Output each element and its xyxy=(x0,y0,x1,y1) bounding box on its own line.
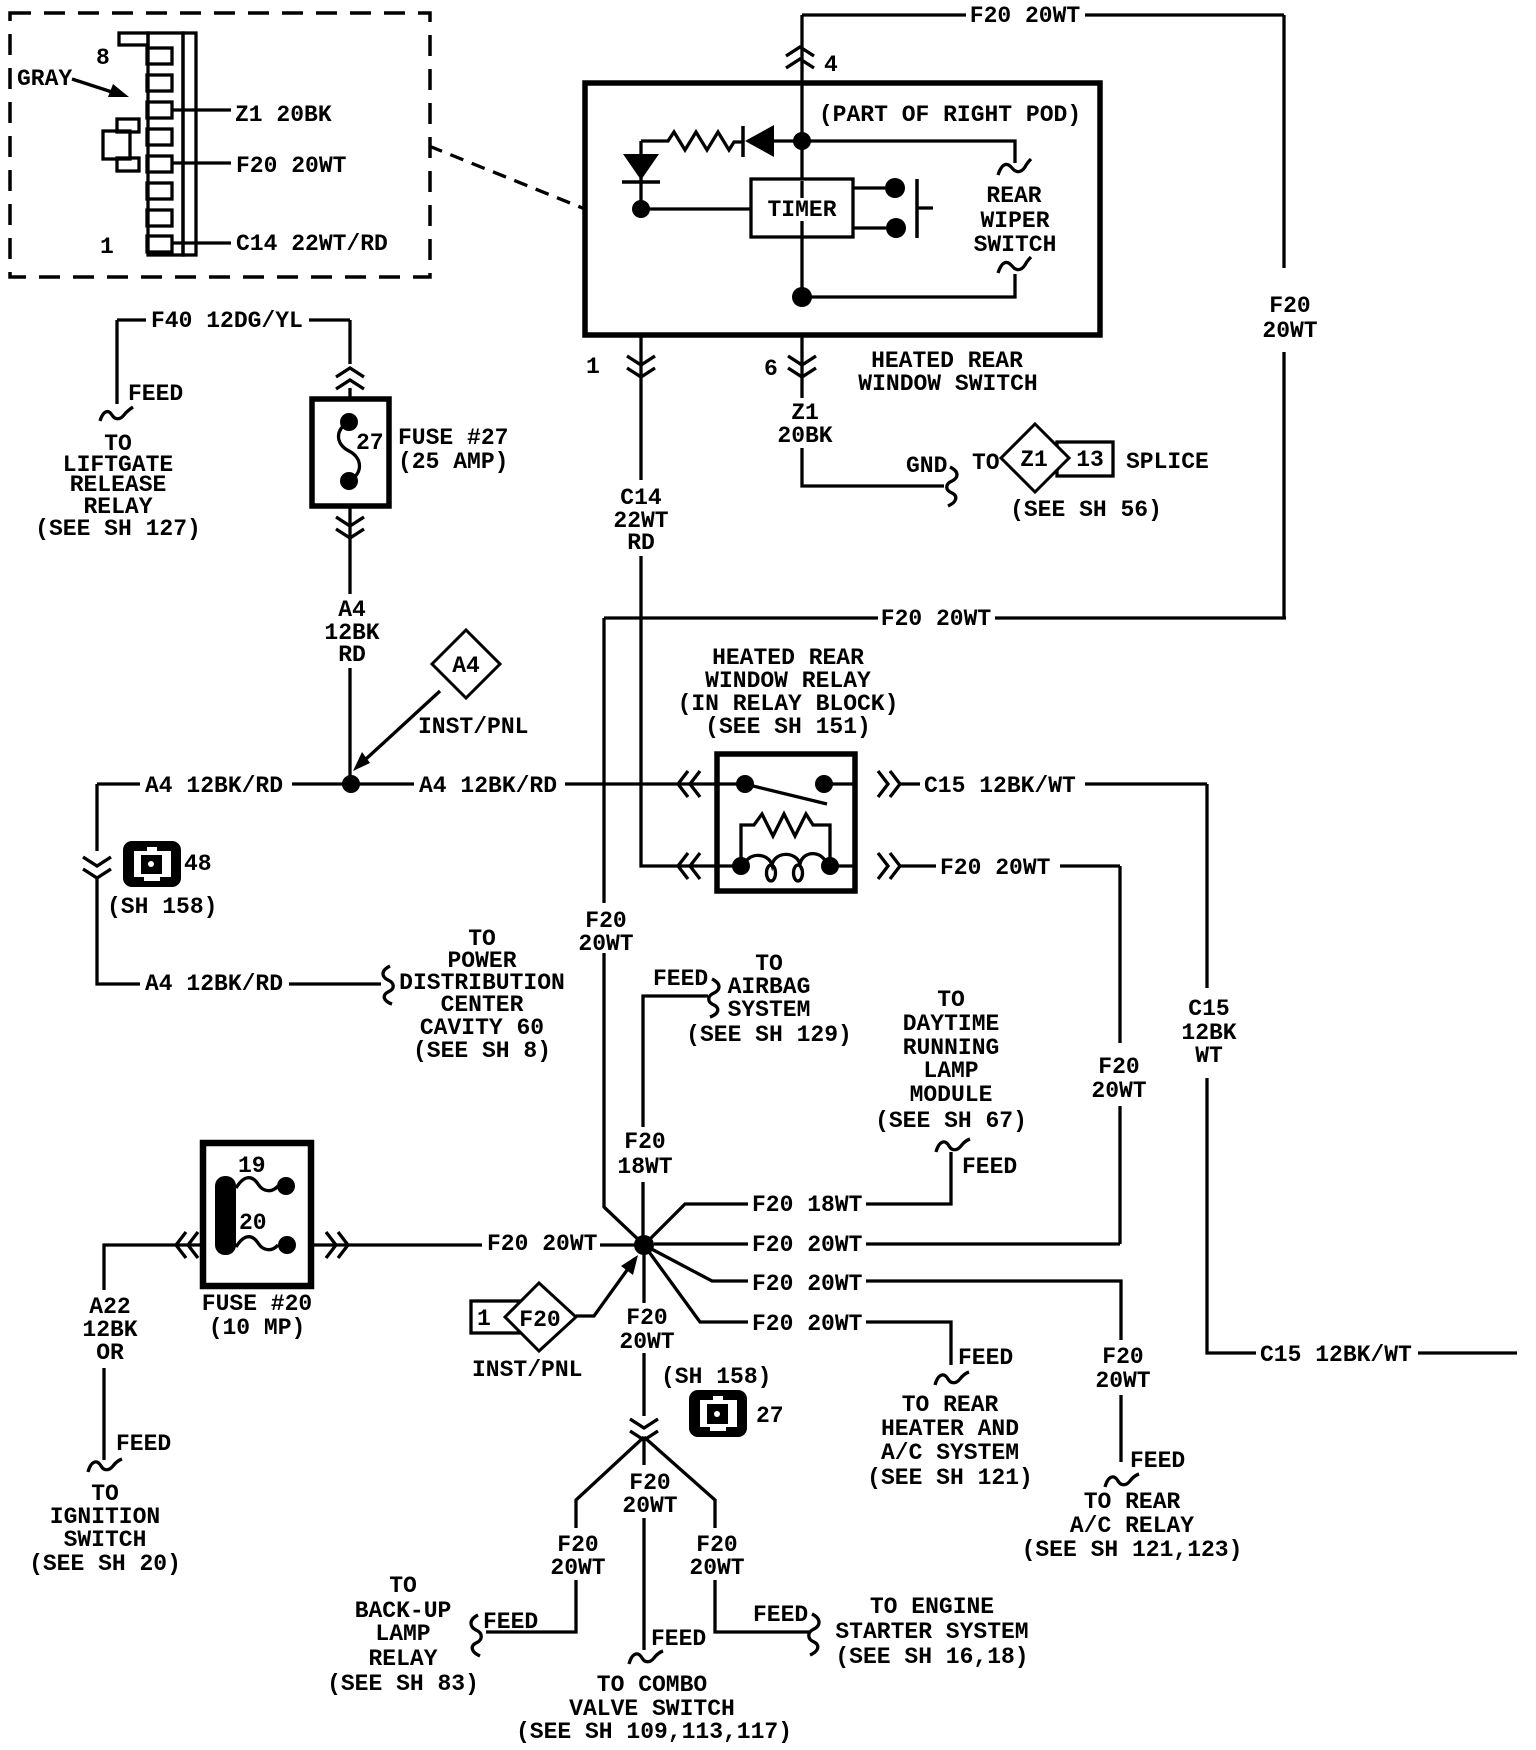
svg-text:F20: F20 xyxy=(626,1305,667,1331)
rear wiper switch lower contact wire xyxy=(802,274,1015,297)
svg-text:FEED: FEED xyxy=(1130,1448,1185,1474)
svg-text:TO: TO xyxy=(389,1573,417,1599)
svg-text:(SEE SH 129): (SEE SH 129) xyxy=(686,1022,852,1048)
svg-text:RELAY: RELAY xyxy=(368,1646,437,1672)
svg-text:(SEE SH 67): (SEE SH 67) xyxy=(875,1108,1027,1134)
svg-text:C15: C15 xyxy=(1188,996,1229,1022)
svg-text:TO ENGINE: TO ENGINE xyxy=(870,1594,994,1620)
svg-text:F20 18WT: F20 18WT xyxy=(752,1192,863,1218)
node: A4 junction dot xyxy=(342,775,360,793)
svg-text:TO: TO xyxy=(937,987,965,1013)
svg-text:20WT: 20WT xyxy=(550,1555,605,1581)
svg-text:F20 20WT: F20 20WT xyxy=(752,1232,863,1258)
connector chevrons relay right top xyxy=(878,771,900,797)
svg-text:4: 4 xyxy=(824,52,838,78)
svg-text:Z1: Z1 xyxy=(1020,447,1048,473)
svg-text:INST/PNL: INST/PNL xyxy=(472,1357,582,1383)
wire airbag feed xyxy=(643,996,708,1245)
svg-text:FEED: FEED xyxy=(116,1431,171,1457)
heated rear window switch box (part of right pod) xyxy=(585,83,1100,335)
svg-text:LAMP: LAMP xyxy=(375,1621,430,1647)
node: junction dot pin4 line xyxy=(793,132,811,150)
wire C15 12BK/WT from relay xyxy=(900,784,1517,1353)
svg-text:20WT: 20WT xyxy=(619,1329,674,1355)
connector chevrons fuse20 left xyxy=(176,1232,198,1258)
svg-text:SPLICE: SPLICE xyxy=(1126,449,1209,475)
svg-text:TO REAR: TO REAR xyxy=(1084,1489,1181,1515)
feed squiggle rear heater xyxy=(935,1372,969,1385)
connector detail dashed box xyxy=(10,13,430,277)
pin wire C14 xyxy=(171,241,231,244)
feed squiggle rear AC relay xyxy=(1105,1474,1139,1487)
connector chevron below junction xyxy=(630,1419,658,1440)
diode D2 (LED pointing down) xyxy=(639,141,642,209)
svg-text:FEED: FEED xyxy=(128,381,183,407)
svg-text:TIMER: TIMER xyxy=(767,197,836,223)
splice Z1 id box 13 xyxy=(1057,442,1113,476)
svg-text:1: 1 xyxy=(100,234,114,260)
feed squiggle engine starter xyxy=(809,1614,819,1655)
connector 48 icon xyxy=(123,841,181,887)
GRAY arrow xyxy=(72,79,112,92)
wire F20 20WT junction to relay leg xyxy=(654,1242,1120,1245)
svg-text:(SEE SH 151): (SEE SH 151) xyxy=(705,714,871,740)
feed squiggle power distribution xyxy=(383,966,393,1004)
svg-text:20WT: 20WT xyxy=(1262,318,1317,344)
svg-text:20: 20 xyxy=(239,1210,267,1236)
wire A22 12BK OR xyxy=(104,1245,203,1460)
connector C (gray 8-way) body xyxy=(103,33,196,255)
svg-text:A/C SYSTEM: A/C SYSTEM xyxy=(881,1440,1019,1466)
svg-text:A4: A4 xyxy=(452,653,480,679)
svg-text:F20: F20 xyxy=(1098,1054,1139,1080)
svg-text:(10 MP): (10 MP) xyxy=(209,1315,306,1341)
wire F20 20WT from relay coil xyxy=(900,866,1120,1244)
feed squiggle DRL xyxy=(936,1139,970,1152)
svg-text:FEED: FEED xyxy=(653,966,708,992)
svg-text:(SEE SH 83): (SEE SH 83) xyxy=(327,1671,479,1697)
svg-text:6: 6 xyxy=(764,356,778,382)
svg-text:TO COMBO: TO COMBO xyxy=(597,1672,707,1698)
wire F20 20WT to rear heater xyxy=(644,1245,951,1365)
svg-text:WIPER: WIPER xyxy=(980,208,1049,234)
wire junction down xyxy=(642,1255,645,1416)
svg-text:LAMP: LAMP xyxy=(923,1058,978,1084)
wire dot to timer xyxy=(641,207,751,210)
svg-text:MODULE: MODULE xyxy=(910,1082,993,1108)
connector chevron above fuse27 xyxy=(336,368,364,389)
svg-text:F20 20WT: F20 20WT xyxy=(236,153,347,179)
svg-text:(SEE SH 109,113,117): (SEE SH 109,113,117) xyxy=(516,1719,792,1745)
relay contact row wire xyxy=(717,782,855,785)
wire A4 12BK/RD row xyxy=(97,784,717,984)
connector chevrons relay right bottom xyxy=(878,853,900,879)
svg-text:F20: F20 xyxy=(519,1307,560,1333)
fuse bus bar xyxy=(215,1176,236,1255)
svg-text:1: 1 xyxy=(477,1306,491,1332)
svg-text:REAR: REAR xyxy=(986,183,1041,209)
svg-text:27: 27 xyxy=(356,430,384,456)
wire F20 18WT daytime running lamp branch xyxy=(644,1152,951,1245)
svg-text:F20: F20 xyxy=(624,1129,665,1155)
svg-text:(SEE SH 127): (SEE SH 127) xyxy=(35,516,201,542)
svg-text:18WT: 18WT xyxy=(617,1154,672,1180)
connector chevron pin6 xyxy=(788,356,816,377)
wire split to back-up lamp relay xyxy=(486,1437,644,1632)
svg-text:DAYTIME: DAYTIME xyxy=(903,1011,1000,1037)
wire F20 inst/pnl leader xyxy=(576,1266,630,1316)
svg-text:HEATER AND: HEATER AND xyxy=(881,1416,1019,1442)
svg-text:19: 19 xyxy=(238,1153,266,1179)
svg-text:(SEE SH 56): (SEE SH 56) xyxy=(1010,497,1162,523)
wire fuse20 to junction F20 20WT xyxy=(311,1243,644,1246)
svg-text:TO: TO xyxy=(972,450,1000,476)
F20 INST/PNL diamond xyxy=(505,1283,576,1351)
svg-text:(SEE SH 20): (SEE SH 20) xyxy=(29,1551,181,1577)
svg-text:A4 12BK/RD: A4 12BK/RD xyxy=(419,773,557,799)
svg-text:FEED: FEED xyxy=(483,1609,538,1635)
rear wiper switch upper contact wire xyxy=(802,141,1015,163)
svg-text:WINDOW SWITCH: WINDOW SWITCH xyxy=(858,371,1037,397)
wire pin6 Z1 20BK xyxy=(802,335,944,486)
svg-text:INST/PNL: INST/PNL xyxy=(418,714,528,740)
svg-text:Z1 20BK: Z1 20BK xyxy=(235,102,332,128)
fuse F27 box xyxy=(312,399,389,506)
connector 27 icon xyxy=(689,1390,747,1437)
F20 id box 1 xyxy=(471,1301,519,1333)
svg-text:(PART OF RIGHT POD): (PART OF RIGHT POD) xyxy=(819,102,1081,128)
node: timer input dot xyxy=(632,200,650,218)
node: timer lower dot xyxy=(792,287,812,307)
dashed leader to switch box xyxy=(429,146,585,209)
svg-text:48: 48 xyxy=(184,851,212,877)
svg-text:(SH 158): (SH 158) xyxy=(107,894,217,920)
svg-text:SWITCH: SWITCH xyxy=(974,232,1057,258)
wire F20 20WT top loop xyxy=(604,15,1286,1245)
fuse element 20 xyxy=(236,1237,278,1250)
fuse element xyxy=(339,422,360,481)
svg-text:1: 1 xyxy=(586,354,600,380)
svg-text:FEED: FEED xyxy=(753,1602,808,1628)
svg-text:F20 20WT: F20 20WT xyxy=(752,1271,863,1297)
svg-text:27: 27 xyxy=(756,1403,784,1429)
connector chevron below fuse27 xyxy=(336,517,364,538)
svg-text:F20: F20 xyxy=(1102,1344,1143,1370)
wire pin4 drop into switch xyxy=(800,15,803,180)
svg-text:C14 22WT/RD: C14 22WT/RD xyxy=(236,231,388,257)
wire F20 20WT to rear AC relay xyxy=(644,1245,1121,1462)
timer output pins xyxy=(853,188,886,228)
svg-text:GRAY: GRAY xyxy=(17,66,72,92)
svg-text:GND: GND xyxy=(906,453,947,479)
rear wiper switch contact bar xyxy=(915,179,919,238)
feed squiggle combo valve xyxy=(629,1651,663,1664)
feed squiggle airbag xyxy=(709,979,719,1017)
svg-text:A/C RELAY: A/C RELAY xyxy=(1070,1513,1194,1539)
svg-text:RD: RD xyxy=(338,642,366,668)
svg-text:20WT: 20WT xyxy=(1095,1368,1150,1394)
svg-text:SYSTEM: SYSTEM xyxy=(728,997,811,1023)
svg-text:F20 20WT: F20 20WT xyxy=(487,1231,598,1257)
svg-text:20WT: 20WT xyxy=(578,931,633,957)
fuse element 19 xyxy=(236,1178,278,1191)
connector chevron A4 left leg xyxy=(83,857,111,878)
svg-text:(SEE SH 121): (SEE SH 121) xyxy=(867,1465,1033,1491)
splice Z1 diamond xyxy=(1001,424,1069,492)
svg-text:F40 12DG/YL: F40 12DG/YL xyxy=(151,308,303,334)
svg-text:20BK: 20BK xyxy=(777,423,832,449)
svg-text:OR: OR xyxy=(96,1340,124,1366)
svg-text:F20 20WT: F20 20WT xyxy=(970,3,1081,29)
svg-text:FUSE #20: FUSE #20 xyxy=(202,1291,312,1317)
connector chevron 4 xyxy=(786,47,814,68)
pin wire Z1 xyxy=(171,108,231,111)
svg-text:(25 AMP): (25 AMP) xyxy=(398,449,508,475)
A4 INST/PNL diamond xyxy=(432,630,500,698)
svg-text:FEED: FEED xyxy=(962,1154,1017,1180)
svg-text:RD: RD xyxy=(627,530,655,556)
svg-text:STARTER SYSTEM: STARTER SYSTEM xyxy=(835,1619,1028,1645)
wire split to engine starter xyxy=(644,1437,810,1632)
svg-text:F20: F20 xyxy=(1269,293,1310,319)
wire split to combo valve switch xyxy=(642,1437,645,1650)
timer box U1 xyxy=(751,179,853,237)
feed squiggle liftgate xyxy=(100,407,133,421)
GND squiggle xyxy=(947,467,957,506)
svg-text:A4 12BK/RD: A4 12BK/RD xyxy=(145,773,283,799)
svg-text:20WT: 20WT xyxy=(1091,1078,1146,1104)
A4 leader arrow xyxy=(366,691,440,759)
connector chevrons relay left bottom xyxy=(678,853,700,879)
svg-text:(SEE SH 8): (SEE SH 8) xyxy=(413,1038,551,1064)
diode D1 (horizontal, cathode bar left) xyxy=(741,126,745,157)
fuse F20 box xyxy=(203,1143,311,1286)
svg-text:FUSE #27: FUSE #27 xyxy=(398,425,508,451)
wire pin1 C14 22WT/RD xyxy=(641,335,717,866)
svg-text:20WT: 20WT xyxy=(689,1555,744,1581)
svg-text:(SEE SH 16,18): (SEE SH 16,18) xyxy=(835,1644,1028,1670)
svg-text:SWITCH: SWITCH xyxy=(64,1527,147,1553)
wire below fuse27 A4 12BK RD xyxy=(348,506,351,784)
svg-text:F20 20WT: F20 20WT xyxy=(940,855,1051,881)
node: main F20 junction xyxy=(634,1235,654,1255)
svg-text:(SEE SH 121,123): (SEE SH 121,123) xyxy=(1022,1537,1243,1563)
connector chevrons fuse20 right xyxy=(326,1232,348,1258)
svg-text:C15 12BK/WT: C15 12BK/WT xyxy=(1260,1342,1412,1368)
pin wire F20 xyxy=(171,161,231,164)
svg-text:13: 13 xyxy=(1076,447,1104,473)
connector chevron pin1 xyxy=(627,356,655,377)
svg-text:(SH 158): (SH 158) xyxy=(661,1364,771,1390)
feed squiggle ignition xyxy=(88,1459,122,1472)
wire timer drop xyxy=(800,237,803,297)
relay contact dots xyxy=(736,775,754,793)
resistor (switch illumination) xyxy=(641,132,742,150)
svg-text:F20 20WT: F20 20WT xyxy=(881,606,992,632)
connector chevrons relay left top xyxy=(678,771,700,797)
svg-text:8: 8 xyxy=(96,45,110,71)
feed squiggle back-up xyxy=(471,1615,481,1656)
svg-text:FEED: FEED xyxy=(958,1345,1013,1371)
relay coil xyxy=(741,814,830,866)
relay contact arm xyxy=(745,784,827,804)
svg-text:F20 20WT: F20 20WT xyxy=(752,1311,863,1337)
svg-text:20WT: 20WT xyxy=(622,1493,677,1519)
relay K1 box xyxy=(717,754,855,891)
svg-text:WT: WT xyxy=(1195,1043,1223,1069)
wire F40 12DG/YL xyxy=(117,320,350,404)
svg-text:C15 12BK/WT: C15 12BK/WT xyxy=(924,773,1076,799)
svg-text:A4 12BK/RD: A4 12BK/RD xyxy=(145,971,283,997)
svg-text:TO REAR: TO REAR xyxy=(902,1392,999,1418)
svg-text:FEED: FEED xyxy=(651,1626,706,1652)
